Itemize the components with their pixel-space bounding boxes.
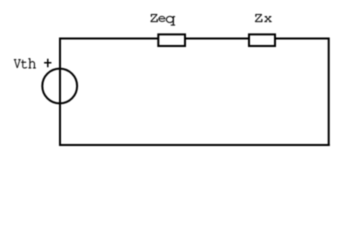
wire: right vertical (328, 38, 330, 147)
wire: top right segment (Zx to right corner) (275, 38, 329, 40)
resistor Zeq (box) (158, 34, 185, 46)
wire: top left segment (source to Zeq) (60, 38, 158, 40)
wire: left vertical (59, 38, 61, 147)
label Zeq (151, 14, 175, 25)
wire: top middle segment (Zeq to Zx) (185, 38, 249, 40)
resistor Zx (box) (249, 34, 275, 46)
wire: bottom horizontal (59, 144, 330, 146)
label Zx (255, 14, 272, 22)
label Vth (14, 58, 36, 68)
voltage source Vth (circle) (42, 69, 77, 104)
polarity plus sign (44, 59, 51, 68)
